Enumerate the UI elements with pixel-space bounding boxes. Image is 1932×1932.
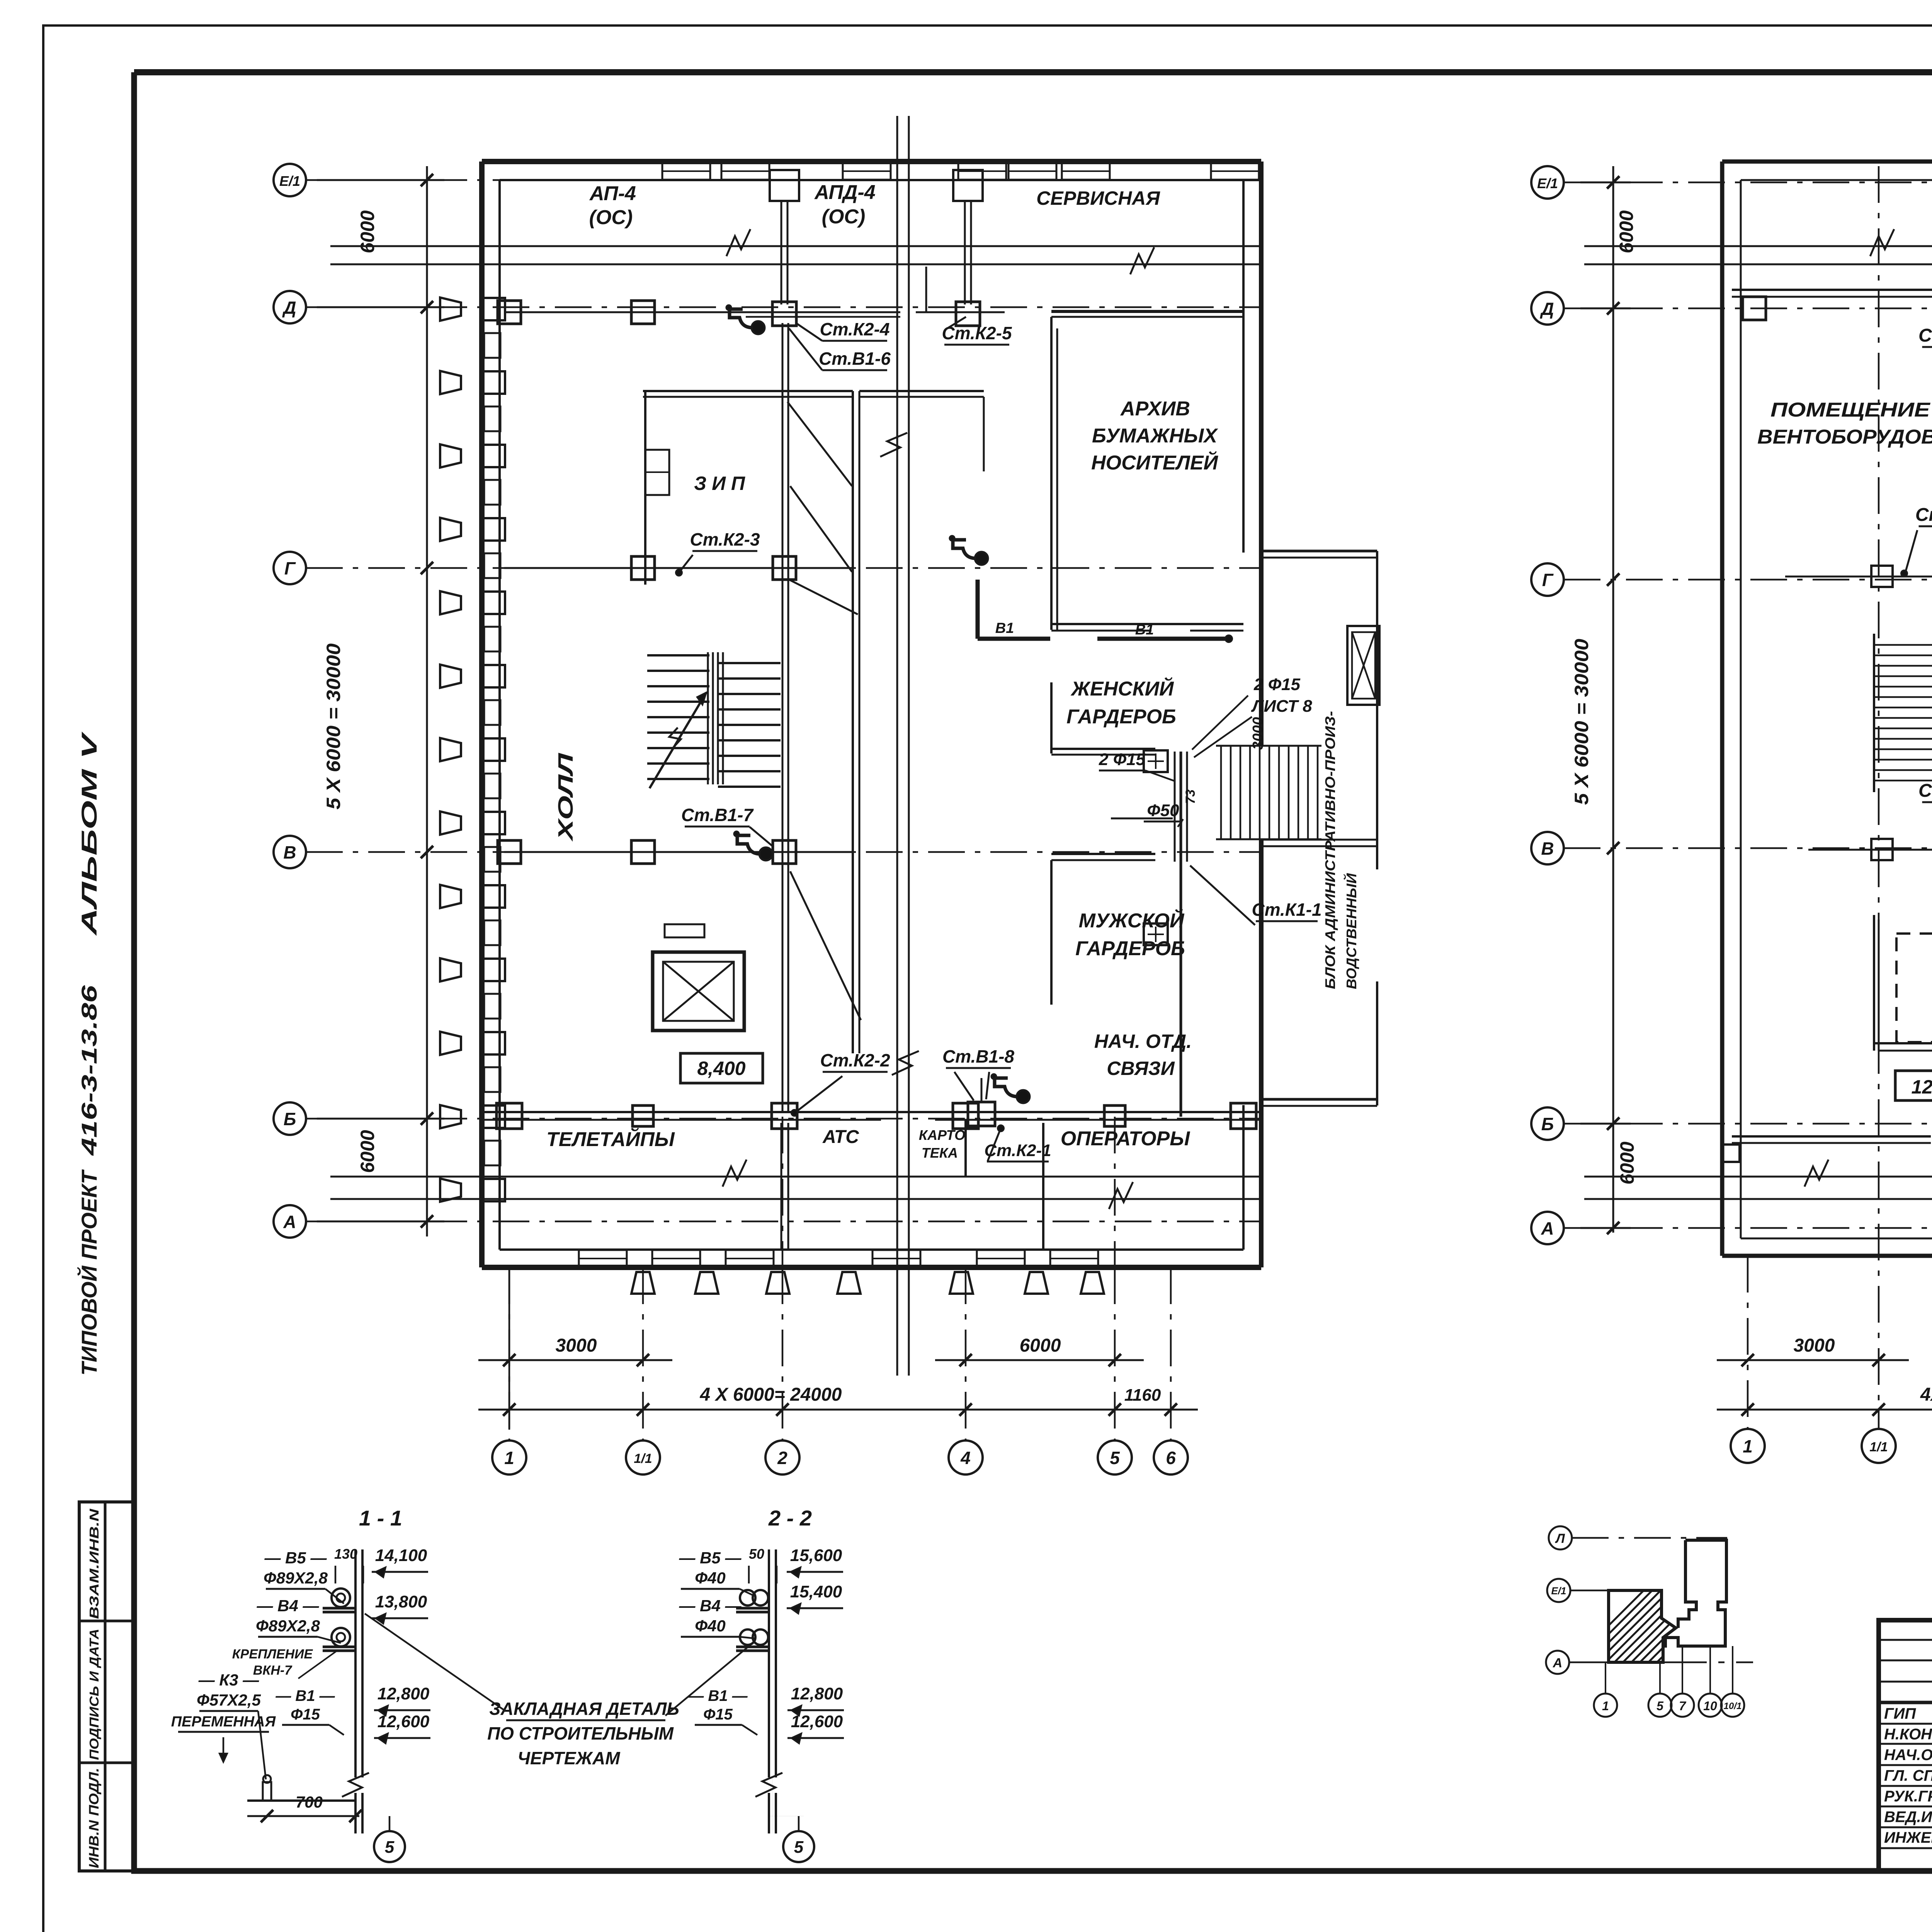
left plan vertical dimension line with ticks [317,166,444,1236]
left plan main stair [647,652,781,788]
svg-text:1/1: 1/1 [1869,1440,1888,1454]
svg-text:НАЧ. ОТД.: НАЧ. ОТД. [1094,1031,1192,1052]
svg-text:Е/1: Е/1 [1537,175,1558,191]
left plan fixtures at row B [968,1074,1030,1126]
right plan dashed roof opening [1896,934,1932,1042]
svg-text:5 X 6000 = 30000: 5 X 6000 = 30000 [323,643,344,810]
svg-text:4: 4 [960,1448,971,1468]
svg-text:4X6000= 24000: 4X6000= 24000 [1920,1384,1932,1405]
svg-text:Г: Г [1542,570,1554,590]
left plan row B wall [482,1103,1261,1129]
svg-text:Ст.К1-1: Ст.К1-1 [1252,900,1321,920]
svg-text:10/1: 10/1 [1724,1701,1742,1711]
svg-text:— В4 —: — В4 — [679,1597,742,1615]
svg-text:8,400: 8,400 [697,1058,745,1079]
svg-text:416-3-13.86: 416-3-13.86 [77,985,101,1156]
svg-text:2 Ф15: 2 Ф15 [1099,750,1146,769]
svg-text:АРХИВ: АРХИВ [1120,398,1190,420]
svg-text:А: А [1553,1656,1563,1670]
grid axis circle 1/1 [626,1440,660,1475]
svg-text:Ст.В1-7: Ст.В1-7 [681,805,754,825]
svg-text:Ф89X2,8: Ф89X2,8 [264,1569,328,1587]
right plan break band top [1584,229,1932,274]
right plan row G beam [1785,566,1932,591]
section 1 - 1 wall and pipe [342,1549,369,1833]
section 1-1 bottom detail [247,1775,362,1822]
svg-text:Д: Д [1539,299,1554,319]
main title block outer [1879,1620,1932,1871]
grid axis circle 1 [492,1440,526,1475]
svg-text:1160: 1160 [1124,1386,1161,1405]
main title block signature rows [1879,1620,1932,1871]
svg-text:ЗАКЛАДНАЯ ДЕТАЛЬ: ЗАКЛАДНАЯ ДЕТАЛЬ [489,1699,679,1719]
svg-text:10: 10 [1703,1699,1717,1713]
svg-text:ВЗАМ.ИНВ.N: ВЗАМ.ИНВ.N [87,1508,101,1619]
svg-text:Ф40: Ф40 [695,1569,726,1587]
left plan right stair treads [1216,746,1321,839]
svg-text:Ф40: Ф40 [695,1617,726,1635]
section 2 - 2 flange plates [736,1608,769,1651]
left plan top wall riser columns [770,170,983,304]
svg-text:СВЯЗИ: СВЯЗИ [1107,1058,1175,1079]
svg-text:ГАРДЕРОБ: ГАРДЕРОБ [1066,706,1176,728]
left plan corridor walls [853,391,984,1053]
left plan break band bottom [330,1160,1261,1209]
svg-text:5 X 6000 = 30000: 5 X 6000 = 30000 [1571,639,1592,805]
svg-text:ВЕНТОБОРУДОВАНИЯ: ВЕНТОБОРУДОВАНИЯ [1757,426,1932,448]
svg-text:Ст.К2-4: Ст.К2-4 [820,319,889,339]
svg-text:Д: Д [282,298,296,318]
svg-text:Ст. К2-3: Ст. К2-3 [1915,505,1932,525]
grid axis circle Д [274,291,306,323]
svg-text:2: 2 [777,1448,787,1468]
key plan circle А [1546,1651,1569,1674]
left plan break band top [330,229,1261,274]
svg-text:НОСИТЕЛЕЙ: НОСИТЕЛЕЙ [1091,451,1218,474]
left plan right protrusion block [1261,551,1377,1106]
svg-text:5: 5 [385,1838,395,1857]
svg-text:Л: Л [1554,1531,1565,1546]
svg-text:3000: 3000 [556,1335,597,1356]
svg-text:ХОЛЛ: ХОЛЛ [554,752,577,842]
svg-text:ПОМЕЩЕНИЕ ДЛЯ: ПОМЕЩЕНИЕ ДЛЯ [1770,399,1932,421]
svg-text:СЕРВИСНАЯ: СЕРВИСНАЯ [1036,187,1160,209]
section 1-1 left labels [171,1549,344,1779]
grid axis circle 5 [1098,1440,1132,1475]
left margin stamp strip [79,1502,134,1871]
grid axis circle 6 [1154,1440,1188,1475]
svg-text:Е/1: Е/1 [1551,1585,1566,1597]
left plan top wall windows [662,163,1259,180]
svg-text:КАРТО: КАРТО [919,1127,965,1143]
svg-text:2 Ф15: 2 Ф15 [1253,675,1301,694]
svg-text:— В5 —: — В5 — [264,1549,327,1567]
left plan corridor wall axis 2 [782,323,788,1112]
svg-text:13,800: 13,800 [375,1592,427,1611]
grid axis circle А [274,1205,306,1238]
svg-text:1 - 1: 1 - 1 [359,1506,402,1530]
grid axis circle Е/1 [1531,166,1564,199]
section 1 - 1 flange plates [323,1608,355,1651]
section 2-2 elevation marks [749,1546,844,1743]
svg-text:Ст.К2-2: Ст.К2-2 [820,1050,890,1070]
key plan other building outline [1663,1540,1726,1646]
left plan lower partition walls [781,1120,1043,1250]
svg-text:6000: 6000 [1020,1335,1061,1356]
svg-text:Ф57X2,5: Ф57X2,5 [197,1691,261,1709]
svg-text:6000: 6000 [1616,1141,1638,1184]
key plan circle Е/1 [1547,1579,1570,1602]
svg-text:Г: Г [284,558,296,578]
svg-text:5: 5 [1656,1699,1664,1713]
svg-text:Ф89X2,8: Ф89X2,8 [256,1617,320,1635]
section 1-1 grid circle 5 [374,1816,405,1862]
svg-text:3000: 3000 [1794,1335,1835,1356]
fixture at st K2 center [975,552,988,565]
title block job titles and names [1884,1705,1932,1846]
right plan horizontal axes dash-dot [1564,182,1932,1228]
svg-text:— К3 —: — К3 — [198,1671,260,1689]
svg-text:В1: В1 [995,620,1014,636]
svg-text:15,600: 15,600 [790,1546,842,1565]
left plan 8.400 level box [680,1053,763,1083]
section 2-2 grid circle 5 [769,1816,814,1862]
left plan pipe B1 [978,580,1232,642]
right plan row B walls [1722,1106,1932,1162]
grid axis circle Д [1531,292,1564,325]
grid axis circle 1 [1731,1429,1765,1463]
svg-text:Ф15: Ф15 [703,1706,733,1723]
svg-text:ЧЕРТЕЖАМ: ЧЕРТЕЖАМ [517,1748,621,1768]
right plan break band bottom [1584,1160,1932,1209]
left plan zhensky garderob [1051,682,1155,755]
svg-text:5: 5 [794,1838,804,1857]
zakladnaya detal note [365,1614,753,1768]
svg-text:— В4 —: — В4 — [256,1597,319,1615]
svg-text:ГИП: ГИП [1884,1705,1916,1722]
svg-text:130: 130 [334,1546,357,1562]
svg-text:ПОДПИСЬ И ДАТА: ПОДПИСЬ И ДАТА [87,1629,101,1760]
svg-text:ОПЕРАТОРЫ: ОПЕРАТОРЫ [1061,1128,1190,1150]
svg-text:7: 7 [1679,1699,1687,1713]
svg-text:12,600: 12,600 [378,1712,430,1731]
left plan protrusion elevator [1347,626,1379,705]
left margin vertical text: Типовой проект 416-3-13.86 Альбом V [77,731,101,1376]
section 2-2 left labels [679,1549,757,1735]
left plan zip room [643,391,853,585]
grid axis circle 2 [765,1440,799,1475]
svg-text:(ОС): (ОС) [589,206,633,229]
svg-text:1: 1 [504,1448,514,1468]
svg-text:А: А [283,1212,296,1232]
svg-text:Ф50: Ф50 [1147,801,1179,820]
left plan row D beams and columns [498,267,1005,326]
svg-text:ТЕКА: ТЕКА [922,1145,958,1161]
grid axis circle Е/1 [274,164,306,196]
svg-text:3000: 3000 [1250,717,1266,750]
left plan bottom dimension lines [478,1267,1198,1430]
grid axis circle Г [1531,563,1564,596]
svg-text:12,600: 12,600 [791,1712,843,1731]
right plan row D walls [1732,290,1932,320]
right plan 12.600 level box [1895,1071,1932,1100]
svg-text:Б: Б [284,1109,296,1129]
svg-text:ПЕРЕМЕННАЯ: ПЕРЕМЕННАЯ [171,1714,276,1730]
key plan bottom circles [1594,1646,1744,1717]
grid axis circle Б [1531,1107,1564,1140]
svg-text:В: В [1541,838,1554,859]
svg-text:ВОДСТВЕННЫЙ: ВОДСТВЕННЫЙ [1343,873,1359,989]
grid axis circle В [1531,832,1564,864]
svg-text:ИНВ.N ПОДЛ.: ИНВ.N ПОДЛ. [87,1768,102,1868]
left plan arhiv room walls [1051,311,1243,631]
svg-text:(ОС): (ОС) [822,206,866,228]
key plan axis lines [1569,1538,1753,1662]
right plan bottom dimension lines [1717,1354,1932,1416]
section 2 - 2 pipe flanges [740,1590,768,1645]
svg-text:АП-4: АП-4 [589,182,636,205]
svg-text:АПД-4: АПД-4 [814,181,876,204]
svg-text:ИНЖЕН.: ИНЖЕН. [1884,1829,1932,1846]
svg-text:З И П: З И П [694,473,745,494]
key plan circle Л [1549,1526,1572,1549]
svg-text:1/1: 1/1 [634,1451,652,1466]
svg-text:КРЕПЛЕНИЕ: КРЕПЛЕНИЕ [232,1647,313,1662]
svg-text:ТЕЛЕТАЙПЫ: ТЕЛЕТАЙПЫ [546,1128,675,1151]
grid axis circle А [1531,1212,1564,1244]
left plan right side washbasin boxes and pipes [1111,750,1187,1117]
svg-text:73: 73 [1183,789,1198,804]
section 2 - 2 wall and pipe [755,1549,782,1833]
svg-text:ЛИСТ 8: ЛИСТ 8 [1251,697,1312,716]
svg-text:Н.КОНТР.: Н.КОНТР. [1884,1726,1932,1743]
grid axis circle В [274,836,306,868]
left plan bottom wall windows and vent cones [579,1250,1104,1294]
svg-text:Ф15: Ф15 [291,1706,320,1723]
svg-text:12,600: 12,600 [1912,1076,1932,1098]
svg-text:14,100: 14,100 [375,1546,427,1565]
left plan outer walls [482,162,1261,1267]
right plan stair [1874,634,1932,792]
svg-text:— В1 —: — В1 — [275,1687,335,1704]
svg-text:5: 5 [1110,1448,1120,1468]
svg-text:В1: В1 [1135,622,1154,638]
right plan vertical axes dash-dot [1748,166,1932,1428]
svg-text:12,800: 12,800 [378,1684,430,1703]
svg-text:АЛЬБОМ V: АЛЬБОМ V [77,731,101,936]
right plan outer walls [1722,162,1932,1256]
svg-text:Б: Б [1541,1114,1554,1134]
left plan horizontal axes dash-dot [306,180,1261,1221]
svg-text:Ст.К2-3: Ст.К2-3 [690,529,760,549]
left plan row G beam [504,556,853,580]
svg-text:АТС: АТС [822,1127,859,1147]
svg-text:А: А [1541,1218,1554,1238]
svg-text:4 X 6000= 24000: 4 X 6000= 24000 [699,1384,842,1405]
left plan left wall columns and vent cones [440,298,505,1202]
right plan walls around opening [1874,900,1932,1051]
svg-text:— В5 —: — В5 — [679,1549,742,1567]
svg-text:НАЧ.ОТД: НАЧ.ОТД [1884,1747,1932,1764]
left plan section cut lines 2-2 [880,116,919,1376]
left plan fixture at st K2-4 [752,321,765,334]
svg-text:700: 700 [296,1793,323,1811]
svg-text:ЖЕНСКИЙ: ЖЕНСКИЙ [1070,677,1174,700]
svg-text:15,400: 15,400 [790,1582,842,1601]
left plan elevator [653,924,744,1031]
svg-text:БЛОК АДМИНИСТРАТИВНО-ПРОИЗ-: БЛОК АДМИНИСТРАТИВНО-ПРОИЗ- [1322,711,1338,989]
svg-text:Ст.В1-6: Ст.В1-6 [819,349,891,369]
svg-text:50: 50 [749,1546,764,1562]
svg-text:РУК.ГР.: РУК.ГР. [1884,1788,1932,1805]
left plan row V beam [498,840,853,864]
svg-text:Е/1: Е/1 [279,173,300,189]
right plan vertical dimension line [1580,166,1631,1234]
grid axis circle 4 [949,1440,983,1475]
right plan row V beam [1808,837,1932,860]
svg-text:2 - 2: 2 - 2 [768,1506,812,1530]
grid axis circle Г [274,552,306,584]
svg-text:Ст.В1-7: Ст.В1-7 [1918,781,1932,801]
svg-text:1: 1 [1743,1436,1753,1456]
svg-text:В: В [283,842,296,862]
svg-text:6000: 6000 [357,1130,378,1173]
svg-text:ВЕД.ИНЖ: ВЕД.ИНЖ [1884,1809,1932,1826]
svg-text:6: 6 [1166,1448,1176,1468]
section 1-1 elevation marks [334,1546,430,1743]
section 1 - 1 pipe flanges [332,1588,350,1646]
svg-text:Ст.В1-6: Ст.В1-6 [1918,325,1932,346]
svg-text:12,800: 12,800 [791,1684,843,1703]
svg-text:БУМАЖНЫХ: БУМАЖНЫХ [1092,425,1218,447]
svg-text:1: 1 [1602,1699,1609,1713]
svg-text:ГЛ. СПЕЦ: ГЛ. СПЕЦ [1884,1767,1932,1784]
left plan muzhskoy garderob [1051,854,1155,1005]
key plan hatched wing [1565,1580,1815,1669]
left plan door diagonals [787,402,861,1020]
svg-text:Ст.В1-8: Ст.В1-8 [942,1046,1014,1066]
svg-text:ТИПОВОЙ ПРОЕКТ: ТИПОВОЙ ПРОЕКТ [77,1169,101,1376]
grid axis circle Б [274,1102,306,1135]
svg-text:ПО СТРОИТЕЛЬНЫМ: ПО СТРОИТЕЛЬНЫМ [487,1723,674,1743]
left plan vertical axes dash-dot [509,1117,1171,1440]
grid axis circle 1/1 [1862,1429,1896,1463]
